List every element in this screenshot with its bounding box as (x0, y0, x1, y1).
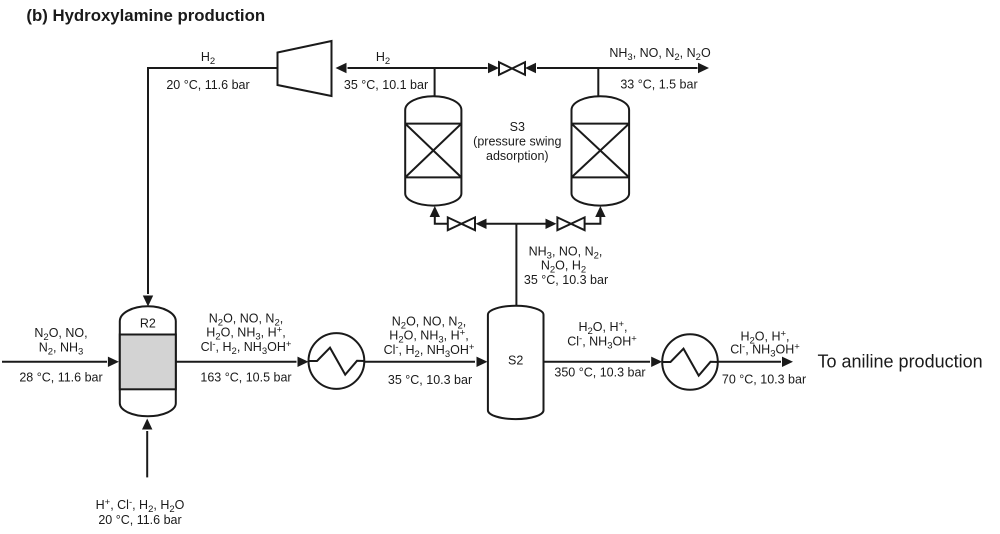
separator S2 (488, 306, 544, 419)
wire compressor outlet to left (148, 68, 278, 294)
wire bed B bottom pipe (585, 216, 601, 224)
svg-text:163 °C, 10.5 bar: 163 °C, 10.5 bar (200, 371, 291, 385)
wire center header left (487, 223, 517, 225)
svg-text:(pressure swing: (pressure swing (473, 135, 561, 149)
svg-text:(b) Hydroxylamine production: (b) Hydroxylamine production (26, 6, 265, 25)
text to aniline production (818, 351, 983, 371)
wire valve to purge arrow (537, 67, 698, 69)
heat exchanger E1 (309, 333, 365, 389)
reactor R2 (120, 306, 176, 416)
svg-text:adsorption): adsorption) (486, 149, 549, 163)
svg-text:20 °C, 11.6 bar: 20 °C, 11.6 bar (98, 513, 181, 527)
stream label S2 outlet (554, 319, 645, 380)
arrowhead into R2 bottom (142, 419, 152, 430)
wire feed left into R2 (2, 361, 107, 363)
svg-text:20 °C, 11.6 bar: 20 °C, 11.6 bar (166, 78, 249, 92)
valve V1 (499, 62, 525, 75)
wire bottom feed into R2 (146, 431, 148, 477)
stream label bottom feed (96, 497, 185, 527)
valve V3 (557, 217, 584, 230)
svg-text:R2: R2 (140, 317, 156, 331)
svg-text:To aniline production: To aniline production (818, 351, 983, 371)
arrowhead into S2 (477, 357, 488, 367)
wire bed B top riser (597, 68, 599, 98)
valve V2 (448, 217, 475, 230)
arrowhead into valve V3 (546, 219, 557, 229)
arrowhead into R2 left (108, 357, 119, 367)
arrowhead purge out (698, 63, 709, 73)
svg-text:S3: S3 (510, 120, 525, 134)
wire S2 riser (515, 224, 517, 307)
arrowhead product out (782, 357, 793, 367)
arrowhead into valve V2 (476, 219, 487, 229)
stream label E1 outlet (384, 315, 475, 388)
arrowhead into E1 (298, 357, 309, 367)
label S3 (473, 120, 561, 163)
wire bed A bottom pipe (435, 216, 448, 224)
label S2 (508, 354, 523, 368)
label R2 (140, 317, 156, 331)
stream label product (722, 329, 806, 387)
stream label H2 left (166, 50, 249, 92)
PSA bed A (405, 96, 461, 205)
svg-text:70 °C, 10.3 bar: 70 °C, 10.3 bar (722, 373, 806, 387)
svg-text:33 °C, 1.5 bar: 33 °C, 1.5 bar (620, 77, 697, 91)
title (26, 6, 265, 25)
svg-text:28 °C, 11.6 bar: 28 °C, 11.6 bar (19, 371, 102, 385)
wire E2 outlet (718, 361, 781, 363)
wire bed A top riser (434, 68, 436, 99)
svg-text:35 °C, 10.3 bar: 35 °C, 10.3 bar (388, 373, 472, 387)
arrowhead into bed B bottom (595, 206, 605, 217)
heat exchanger E2 (662, 334, 718, 390)
wire E1 to S2 (364, 361, 475, 363)
stream label S2 to beds (524, 245, 608, 288)
arrowhead into valve V1 left (488, 63, 499, 73)
arrowhead into valve V1 right (525, 63, 536, 73)
compressor K1 (278, 41, 332, 96)
wire compressor inlet (348, 67, 488, 69)
svg-text:S2: S2 (508, 354, 523, 368)
arrowhead into E2 (651, 357, 662, 367)
wire R2 to E1 (176, 361, 296, 363)
arrowhead into compressor (336, 63, 347, 73)
stream label purge (609, 46, 711, 91)
arrowhead into R2 top (143, 296, 153, 307)
stream label H2 right (344, 50, 428, 92)
wire center header right (516, 223, 545, 225)
svg-text:350 °C, 10.3 bar: 350 °C, 10.3 bar (554, 366, 645, 380)
svg-text:35 °C, 10.1 bar: 35 °C, 10.1 bar (344, 78, 428, 92)
wire S2 to E2 (544, 361, 650, 363)
PSA bed B (572, 96, 630, 205)
arrowhead into bed A bottom (430, 206, 440, 217)
stream label feed left (19, 326, 102, 385)
stream label R2 outlet (200, 312, 291, 385)
svg-text:35 °C, 10.3 bar: 35 °C, 10.3 bar (524, 273, 608, 287)
